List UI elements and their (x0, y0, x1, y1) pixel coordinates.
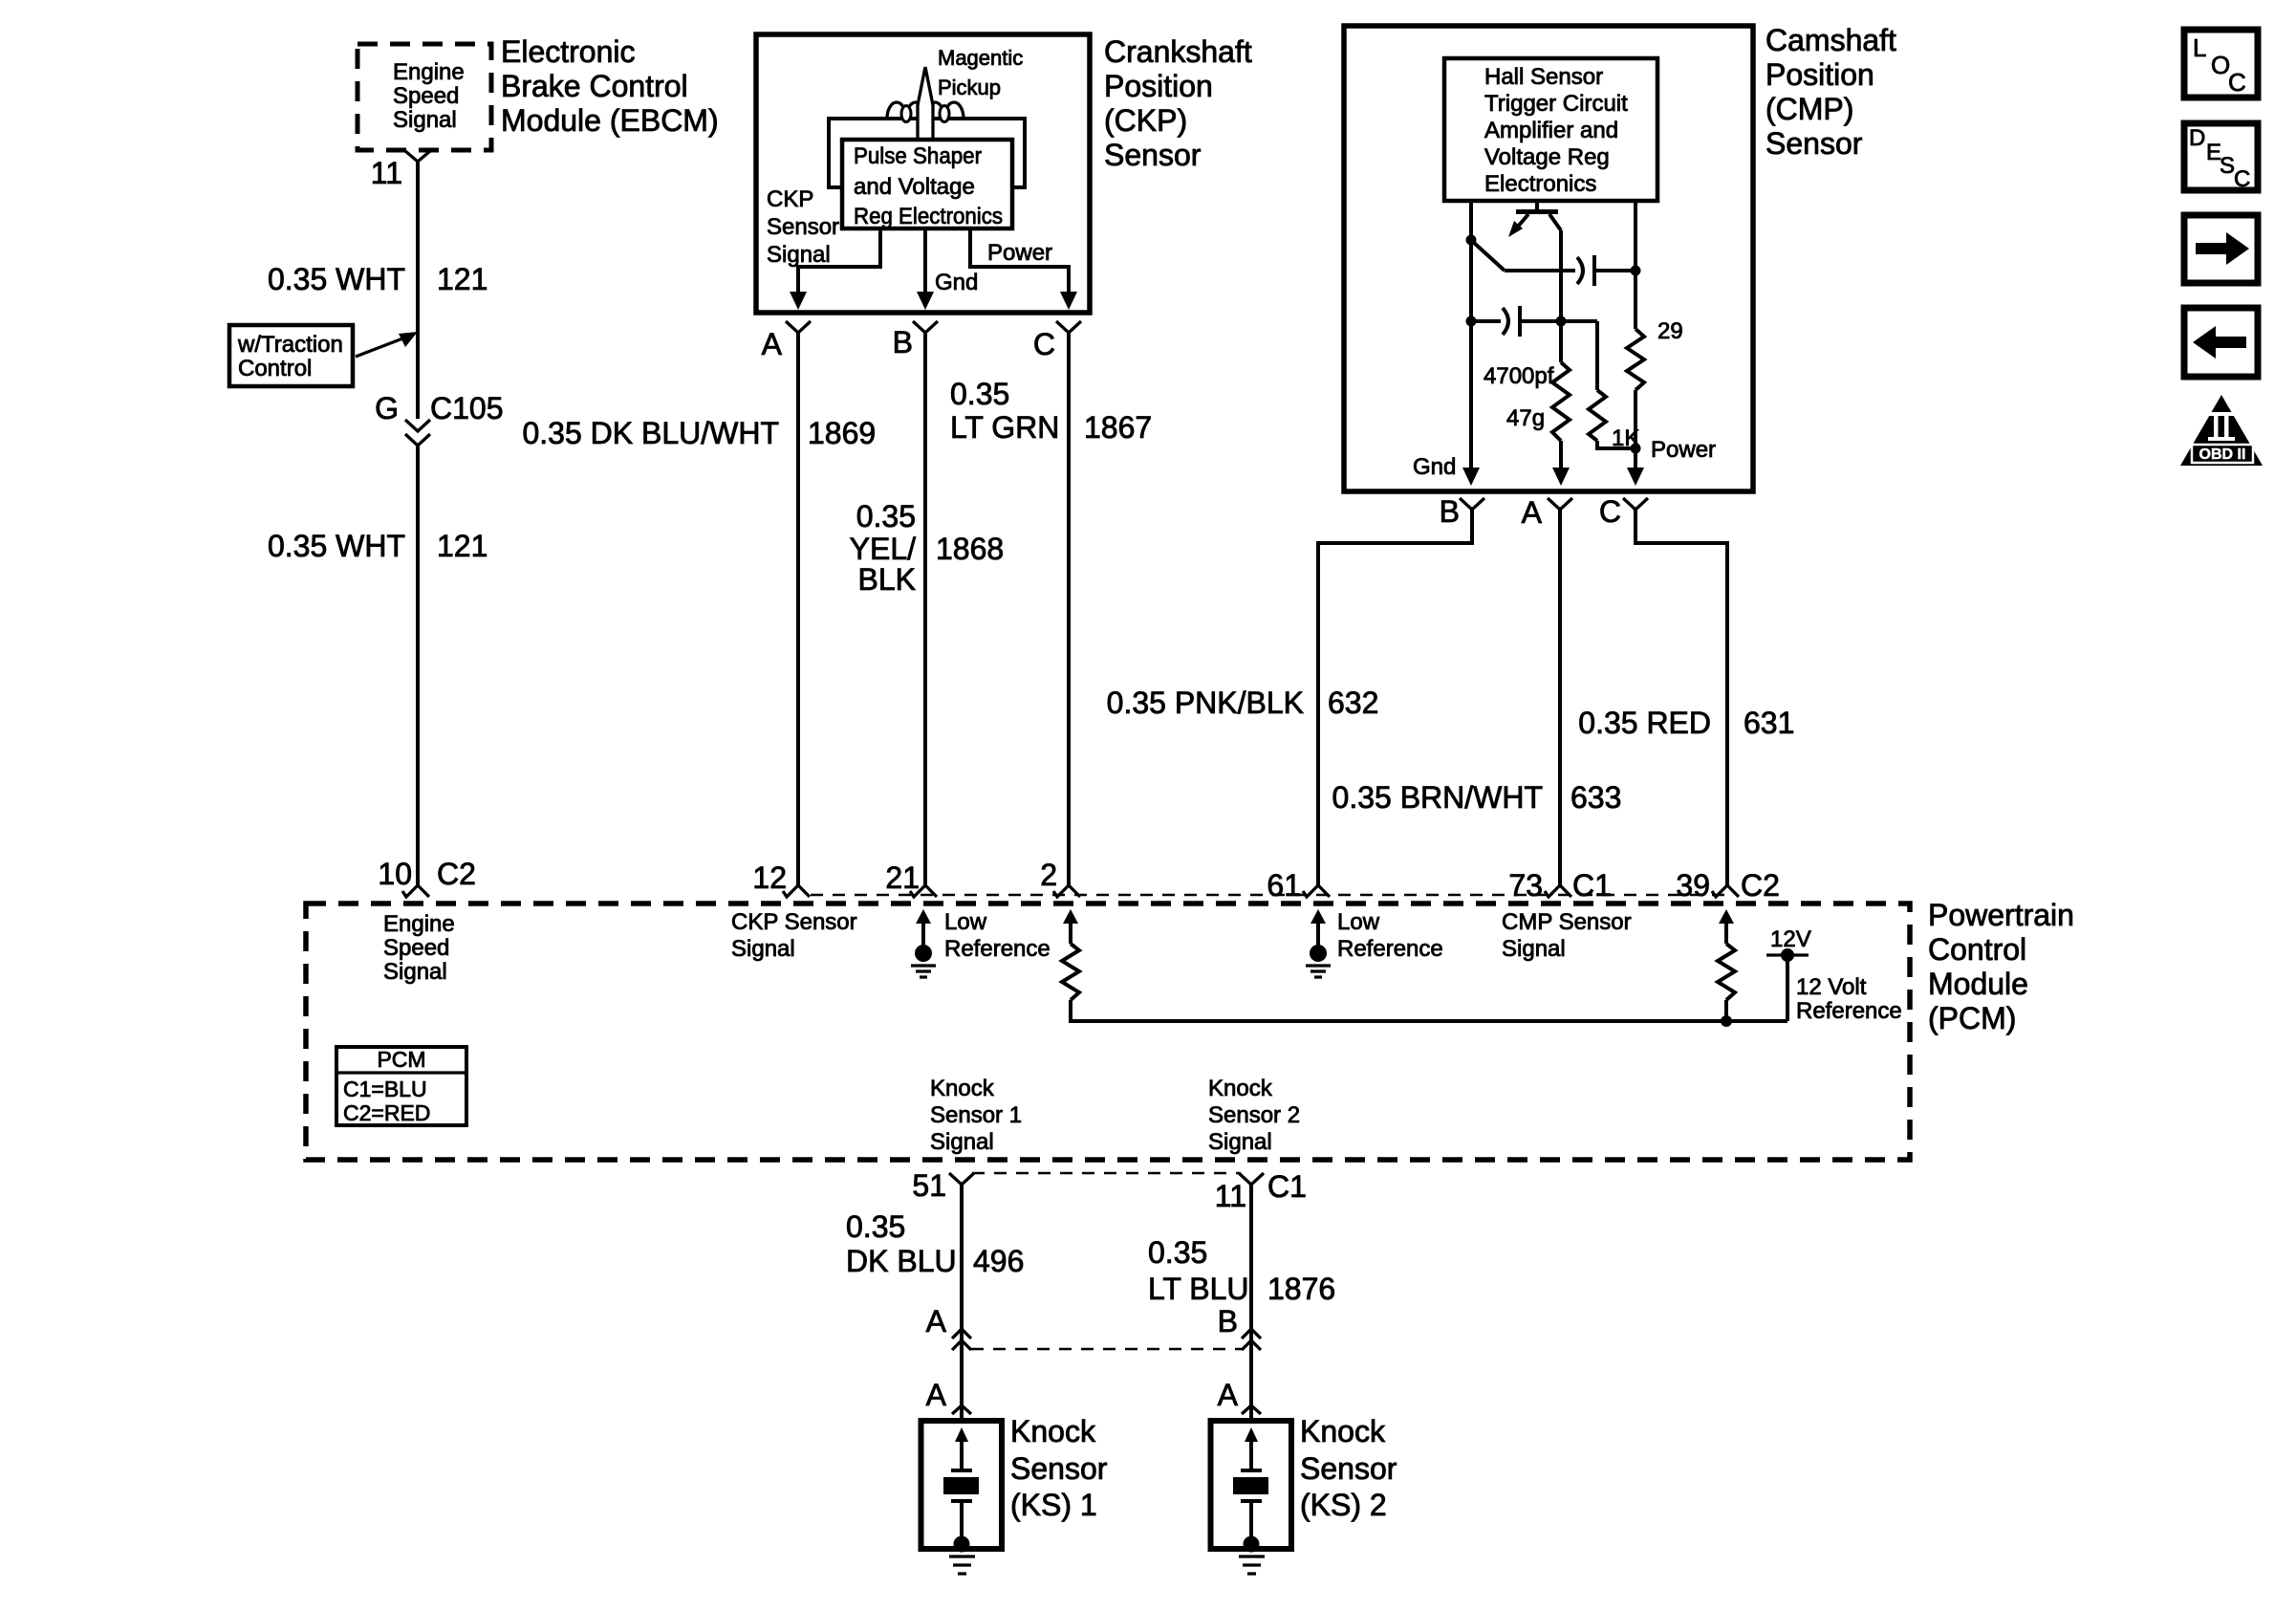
svg-text:A: A (1522, 495, 1543, 530)
svg-text:Amplifier and: Amplifier and (1484, 118, 1618, 143)
svg-text:12 Volt: 12 Volt (1796, 974, 1867, 1000)
svg-text:C105: C105 (430, 391, 504, 425)
svg-text:Electronic: Electronic (501, 34, 636, 69)
svg-text:Signal: Signal (731, 936, 795, 962)
svg-text:C: C (1599, 494, 1621, 529)
svg-text:Brake Control: Brake Control (501, 69, 688, 103)
svg-text:Speed: Speed (383, 935, 449, 961)
svg-text:0.35: 0.35 (1148, 1235, 1207, 1270)
svg-text:Power: Power (1651, 437, 1716, 463)
svg-text:(KS) 2: (KS) 2 (1300, 1488, 1387, 1522)
svg-text:0.35: 0.35 (846, 1209, 905, 1244)
svg-text:OBD II: OBD II (2199, 446, 2246, 463)
svg-text:Signal: Signal (1502, 936, 1566, 962)
svg-text:2: 2 (1040, 858, 1057, 892)
svg-text:0.35 DK BLU/WHT: 0.35 DK BLU/WHT (522, 416, 779, 450)
svg-text:0.35 RED: 0.35 RED (1578, 706, 1711, 740)
svg-text:1K: 1K (1612, 425, 1639, 451)
svg-text:Sensor: Sensor (1104, 138, 1202, 172)
svg-text:Signal: Signal (930, 1129, 994, 1155)
svg-text:Gnd: Gnd (1413, 454, 1456, 480)
svg-text:11: 11 (371, 156, 402, 190)
svg-text:61: 61 (1267, 868, 1301, 903)
svg-text:Electronics: Electronics (1484, 171, 1596, 197)
svg-text:121: 121 (437, 529, 487, 563)
svg-text:1876: 1876 (1267, 1272, 1335, 1306)
svg-text:0.35: 0.35 (856, 499, 916, 533)
svg-text:11: 11 (1215, 1179, 1246, 1213)
svg-text:Magentic: Magentic (938, 46, 1023, 70)
svg-text:Sensor 2: Sensor 2 (1208, 1102, 1300, 1128)
svg-text:Control: Control (1928, 932, 2026, 967)
svg-text:CKP: CKP (767, 186, 813, 212)
svg-text:and Voltage: and Voltage (854, 174, 975, 200)
svg-text:47g: 47g (1506, 405, 1545, 431)
svg-text:Control: Control (238, 356, 312, 381)
svg-text:Reference: Reference (1337, 936, 1443, 962)
svg-text:B: B (1440, 494, 1460, 529)
svg-text:0.35: 0.35 (950, 377, 1009, 411)
svg-text:Trigger Circuit: Trigger Circuit (1484, 91, 1628, 117)
svg-text:PCM: PCM (377, 1047, 425, 1072)
svg-text:D: D (2189, 125, 2205, 151)
svg-text:C2: C2 (437, 857, 476, 891)
svg-text:S: S (2220, 153, 2235, 179)
svg-text:Hall Sensor: Hall Sensor (1484, 64, 1603, 90)
svg-text:A: A (926, 1304, 947, 1339)
svg-text:Voltage Reg: Voltage Reg (1484, 144, 1610, 170)
svg-text:Position: Position (1104, 69, 1213, 103)
svg-text:C2=RED: C2=RED (343, 1100, 430, 1125)
svg-text:1869: 1869 (808, 416, 876, 450)
svg-text:Signal: Signal (1208, 1129, 1272, 1155)
svg-text:0.35 PNK/BLK: 0.35 PNK/BLK (1107, 686, 1304, 720)
svg-text:C: C (2234, 166, 2250, 192)
svg-text:Reference: Reference (1796, 998, 1902, 1024)
svg-text:Crankshaft: Crankshaft (1104, 34, 1252, 69)
svg-text:(CKP): (CKP) (1104, 103, 1187, 138)
svg-text:Knock: Knock (930, 1076, 995, 1101)
svg-text:496: 496 (973, 1244, 1024, 1278)
svg-text:Gnd: Gnd (935, 270, 978, 295)
svg-text:73: 73 (1508, 868, 1543, 903)
svg-text:w/Traction: w/Traction (237, 332, 343, 358)
svg-text:A: A (926, 1378, 947, 1412)
svg-text:Knock: Knock (1208, 1076, 1273, 1101)
svg-text:Reference: Reference (944, 936, 1051, 962)
svg-text:YEL/: YEL/ (850, 532, 916, 566)
svg-text:633: 633 (1570, 780, 1621, 815)
svg-text:Sensor: Sensor (767, 214, 839, 240)
svg-text:Speed: Speed (393, 83, 459, 109)
svg-text:Powertrain: Powertrain (1928, 898, 2074, 932)
svg-text:Low: Low (944, 909, 987, 935)
svg-text:Engine: Engine (393, 59, 465, 85)
svg-text:C1=BLU: C1=BLU (343, 1077, 427, 1101)
svg-text:10: 10 (378, 857, 412, 891)
svg-text:Pickup: Pickup (938, 76, 1001, 99)
svg-text:A: A (762, 327, 783, 361)
svg-text:Power: Power (987, 240, 1052, 266)
svg-text:Low: Low (1337, 909, 1380, 935)
svg-text:51: 51 (912, 1168, 946, 1203)
svg-text:631: 631 (1744, 706, 1794, 740)
svg-text:Module (EBCM): Module (EBCM) (501, 103, 719, 138)
svg-text:DK BLU: DK BLU (846, 1244, 957, 1278)
svg-text:Sensor: Sensor (1300, 1451, 1397, 1486)
svg-text:Signal: Signal (393, 107, 457, 133)
svg-text:L: L (2193, 33, 2206, 62)
svg-text:(CMP): (CMP) (1765, 92, 1853, 126)
svg-text:121: 121 (437, 262, 487, 296)
svg-text:Reg Electronics: Reg Electronics (854, 204, 1003, 229)
svg-text:Position: Position (1765, 57, 1874, 92)
svg-text:B: B (1218, 1304, 1238, 1339)
svg-text:C1: C1 (1267, 1169, 1307, 1204)
svg-text:29: 29 (1657, 318, 1683, 344)
svg-text:Signal: Signal (383, 959, 447, 985)
svg-text:39: 39 (1676, 868, 1710, 903)
svg-text:21: 21 (885, 860, 920, 895)
svg-text:Sensor 1: Sensor 1 (930, 1102, 1022, 1128)
svg-text:C1: C1 (1572, 868, 1612, 903)
svg-text:1868: 1868 (936, 532, 1004, 566)
svg-text:Pulse Shaper: Pulse Shaper (854, 143, 982, 169)
svg-text:0.35 BRN/WHT: 0.35 BRN/WHT (1332, 780, 1543, 815)
svg-text:Camshaft: Camshaft (1765, 23, 1896, 57)
svg-text:BLK: BLK (858, 562, 916, 597)
svg-text:C: C (2228, 68, 2246, 97)
svg-text:CMP Sensor: CMP Sensor (1502, 909, 1632, 935)
svg-text:LT BLU: LT BLU (1148, 1272, 1249, 1306)
svg-text:Knock: Knock (1300, 1414, 1386, 1448)
svg-text:G: G (375, 391, 399, 425)
svg-text:12: 12 (752, 860, 787, 895)
svg-text:CKP Sensor: CKP Sensor (731, 909, 857, 935)
svg-text:C2: C2 (1741, 868, 1780, 903)
svg-text:1867: 1867 (1084, 410, 1152, 445)
svg-text:Signal: Signal (767, 242, 831, 268)
svg-text:Knock: Knock (1010, 1414, 1096, 1448)
svg-text:632: 632 (1328, 686, 1378, 720)
svg-text:12V: 12V (1770, 926, 1811, 952)
svg-text:LT GRN: LT GRN (950, 410, 1059, 445)
svg-text:0.35 WHT: 0.35 WHT (268, 262, 405, 296)
svg-text:0.35 WHT: 0.35 WHT (268, 529, 405, 563)
svg-text:C: C (1033, 327, 1055, 361)
svg-text:(PCM): (PCM) (1928, 1001, 2016, 1035)
svg-text:Sensor: Sensor (1765, 126, 1863, 161)
svg-text:(KS) 1: (KS) 1 (1010, 1488, 1097, 1522)
svg-text:Module: Module (1928, 967, 2028, 1001)
svg-text:B: B (893, 325, 913, 359)
svg-text:Sensor: Sensor (1010, 1451, 1108, 1486)
svg-text:4700pf: 4700pf (1484, 363, 1554, 389)
svg-text:A: A (1218, 1378, 1239, 1412)
svg-text:Engine: Engine (383, 911, 455, 937)
